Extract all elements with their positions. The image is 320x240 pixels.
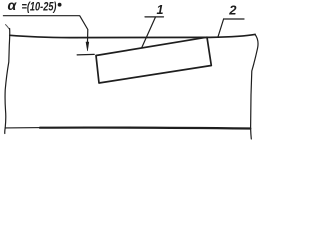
- degree dot: [58, 3, 62, 7]
- label 2 shelf: [224, 18, 244, 20]
- svg-text:=(10-25): =(10-25): [22, 2, 57, 14]
- strip left break edge top hook: [6, 25, 10, 30]
- alpha label underline and leader: [3, 16, 87, 46]
- svg-text:1: 1: [157, 3, 164, 17]
- svg-text:2: 2: [228, 2, 237, 17]
- strip right break edge: [251, 34, 258, 139]
- alpha leader arrowhead: [86, 42, 89, 51]
- angle reference tick: [77, 53, 94, 56]
- blade (item 1) rectangle: [96, 37, 211, 83]
- label 1 leader wire: [142, 17, 156, 48]
- label 2 leader wire: [218, 19, 224, 37]
- strip top edge (surface, item 2): [10, 34, 255, 37]
- label 1 shelf: [145, 16, 164, 18]
- strip bottom edge thick part: [40, 126, 250, 129]
- strip bottom edge thin left part: [5, 127, 44, 129]
- svg-text:α: α: [8, 0, 17, 13]
- strip left break edge: [5, 29, 10, 134]
